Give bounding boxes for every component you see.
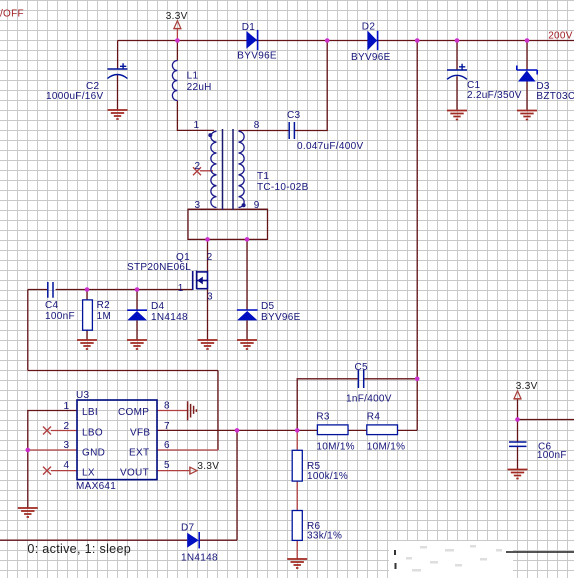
svg-text:3: 3 bbox=[195, 200, 201, 211]
svg-text:8: 8 bbox=[164, 401, 170, 412]
svg-text:1: 1 bbox=[194, 120, 200, 131]
svg-text:BYV96E: BYV96E bbox=[237, 51, 277, 62]
svg-text:D1: D1 bbox=[242, 22, 256, 33]
svg-text:LBI: LBI bbox=[82, 407, 98, 418]
svg-text:3.3V: 3.3V bbox=[166, 11, 188, 22]
svg-text:100nF: 100nF bbox=[537, 450, 567, 461]
svg-text:4: 4 bbox=[64, 460, 70, 471]
svg-text:0.047uF/400V: 0.047uF/400V bbox=[297, 141, 363, 152]
svg-text:C3: C3 bbox=[287, 110, 301, 121]
svg-text:R3: R3 bbox=[316, 412, 330, 423]
svg-text:D7: D7 bbox=[181, 523, 195, 534]
svg-text:GND: GND bbox=[82, 447, 105, 458]
svg-text:LBO: LBO bbox=[82, 428, 103, 439]
svg-text:100nF: 100nF bbox=[45, 311, 75, 322]
svg-text:5: 5 bbox=[164, 460, 170, 471]
svg-text:C5: C5 bbox=[355, 362, 369, 373]
svg-text:1N4148: 1N4148 bbox=[181, 552, 218, 563]
svg-text:EXT: EXT bbox=[129, 447, 149, 458]
svg-text:VFB: VFB bbox=[130, 428, 150, 439]
svg-text:MAX641: MAX641 bbox=[76, 481, 116, 492]
svg-text:1M: 1M bbox=[97, 311, 112, 322]
svg-text:V/OFF: V/OFF bbox=[0, 9, 24, 20]
svg-text:VOUT: VOUT bbox=[120, 468, 149, 479]
svg-text:R4: R4 bbox=[367, 412, 381, 423]
svg-text:1N4148: 1N4148 bbox=[151, 312, 188, 323]
svg-text:C4: C4 bbox=[45, 300, 59, 311]
svg-text:200V: 200V bbox=[548, 31, 573, 42]
svg-text:100k/1%: 100k/1% bbox=[307, 471, 348, 482]
svg-text:L1: L1 bbox=[187, 71, 199, 82]
svg-text:6: 6 bbox=[164, 440, 170, 451]
svg-text:1000uF/16V: 1000uF/16V bbox=[46, 91, 104, 102]
svg-text:0: active, 1: sleep: 0: active, 1: sleep bbox=[27, 542, 131, 556]
svg-text:BYV96E: BYV96E bbox=[261, 312, 301, 323]
svg-text:10M/1%: 10M/1% bbox=[316, 441, 355, 452]
svg-text:3.3V: 3.3V bbox=[516, 381, 538, 392]
svg-text:R2: R2 bbox=[97, 300, 111, 311]
svg-text:STP20NE06L: STP20NE06L bbox=[127, 262, 191, 273]
svg-text:3: 3 bbox=[64, 440, 70, 451]
svg-text:D5: D5 bbox=[261, 301, 275, 312]
svg-text:TC-10-02B: TC-10-02B bbox=[257, 182, 309, 193]
svg-text:9: 9 bbox=[254, 200, 260, 211]
svg-text:10M/1%: 10M/1% bbox=[367, 441, 406, 452]
svg-text:2: 2 bbox=[195, 161, 201, 172]
svg-text:U3: U3 bbox=[76, 390, 90, 401]
svg-text:2.2uF/350V: 2.2uF/350V bbox=[467, 90, 522, 101]
svg-text:BYV96E: BYV96E bbox=[351, 52, 391, 63]
svg-text:BZT03C200: BZT03C200 bbox=[536, 91, 574, 102]
svg-text:3.3V: 3.3V bbox=[197, 461, 219, 472]
svg-text:2: 2 bbox=[64, 421, 70, 432]
svg-text:33k/1%: 33k/1% bbox=[307, 531, 342, 542]
svg-text:2: 2 bbox=[207, 252, 213, 263]
svg-text:1: 1 bbox=[64, 401, 70, 412]
svg-text:T1: T1 bbox=[257, 171, 269, 182]
svg-text:7: 7 bbox=[164, 421, 170, 432]
svg-text:8: 8 bbox=[254, 120, 260, 131]
svg-text:COMP: COMP bbox=[118, 407, 149, 418]
svg-text:1: 1 bbox=[178, 283, 184, 294]
svg-text:22uH: 22uH bbox=[187, 82, 212, 93]
svg-text:D4: D4 bbox=[151, 301, 165, 312]
svg-text:3: 3 bbox=[207, 292, 213, 303]
svg-text:D2: D2 bbox=[362, 22, 376, 33]
svg-text:1nF/400V: 1nF/400V bbox=[346, 393, 392, 404]
svg-text:LX: LX bbox=[82, 468, 95, 479]
